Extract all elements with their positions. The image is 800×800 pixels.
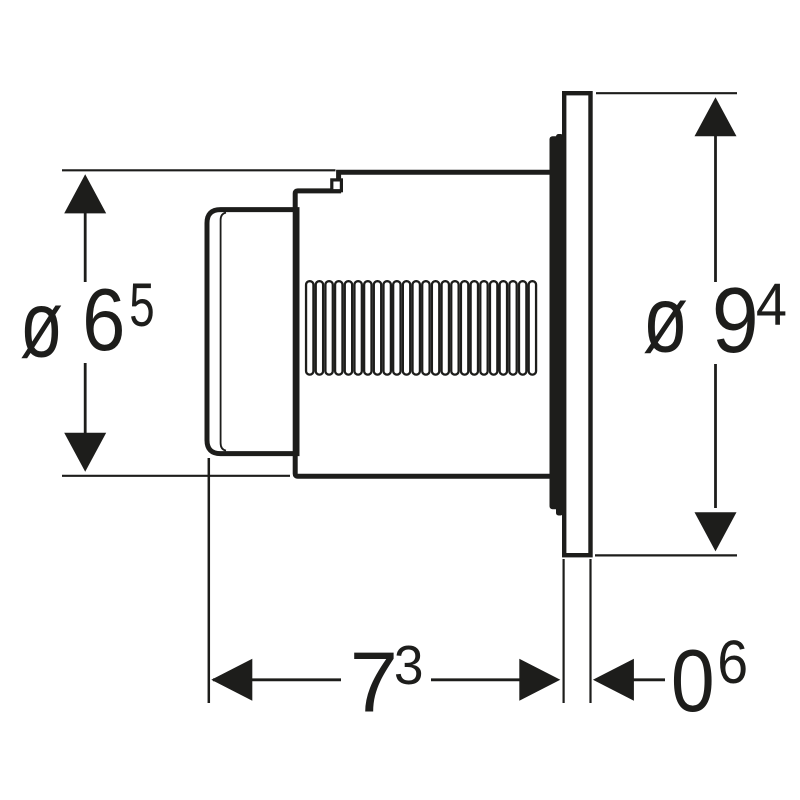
ribbed grip section [306,281,313,374]
dim 73: left extension line [208,458,211,703]
dim o65: dimension line lower segment [84,363,87,434]
wall plate (right vertical plate) [564,93,590,555]
svg-text:6: 6 [717,628,748,696]
svg-text:5: 5 [129,272,154,340]
dim o94: top arrowhead [695,97,737,136]
svg-text:9: 9 [712,268,759,372]
svg-text:7: 7 [350,635,398,730]
dim 06: dimension line stub [633,678,665,681]
dim 73: right arrowhead [519,659,560,701]
dim o94: dimension line upper segment [714,136,717,282]
dim o65: label diameter sign [20,272,63,377]
dim o94: label superscript 4 [756,273,787,339]
dim o94: label diameter sign [643,267,688,371]
dim o94: bottom arrowhead [695,512,737,551]
svg-text:4: 4 [756,273,787,339]
dim o65: top extension line [62,169,336,171]
dim o94: dimension line lower segment [714,364,717,508]
dim 06: arrowhead [593,659,634,701]
svg-text:6: 6 [82,270,125,369]
button (rounded push button, left) [207,210,297,454]
svg-text:ø: ø [643,267,688,371]
clip square on body top [332,180,342,191]
dim 06: label superscript 6 [717,628,748,696]
dim 73: label digit 7 [350,635,398,730]
dim 73: dimension line left segment [213,678,341,681]
svg-text:0: 0 [671,631,715,730]
dim 06: plate left extension line [562,559,564,703]
dim 73: left arrowhead [211,659,252,701]
dim o65: label digit 6 [82,270,125,369]
dim 06: plate right extension line [589,559,591,703]
button inner highlight line [221,213,226,451]
svg-text:3: 3 [394,636,424,697]
dim 73: label superscript 3 [394,636,424,697]
svg-text:ø: ø [20,272,63,377]
dim 73: dimension line right segment [431,678,557,681]
dim o65: dimension line upper segment [84,210,87,282]
body barrel outline with top notch step [295,172,552,476]
flange gasket bar (tall narrow, black) [556,134,563,516]
dim o65: bottom extension line [62,475,290,477]
flange gasket bar (main, black) [550,136,563,509]
dim o94: bottom extension line [595,554,737,556]
dim o94: top extension line [596,92,737,94]
dim o94: label digit 9 [712,268,759,372]
dim 06: label digit 0 [671,631,715,730]
dim o65: label superscript 5 [129,272,154,340]
dim o65: top arrowhead [64,174,106,213]
dim o65: bottom arrowhead [64,433,106,472]
